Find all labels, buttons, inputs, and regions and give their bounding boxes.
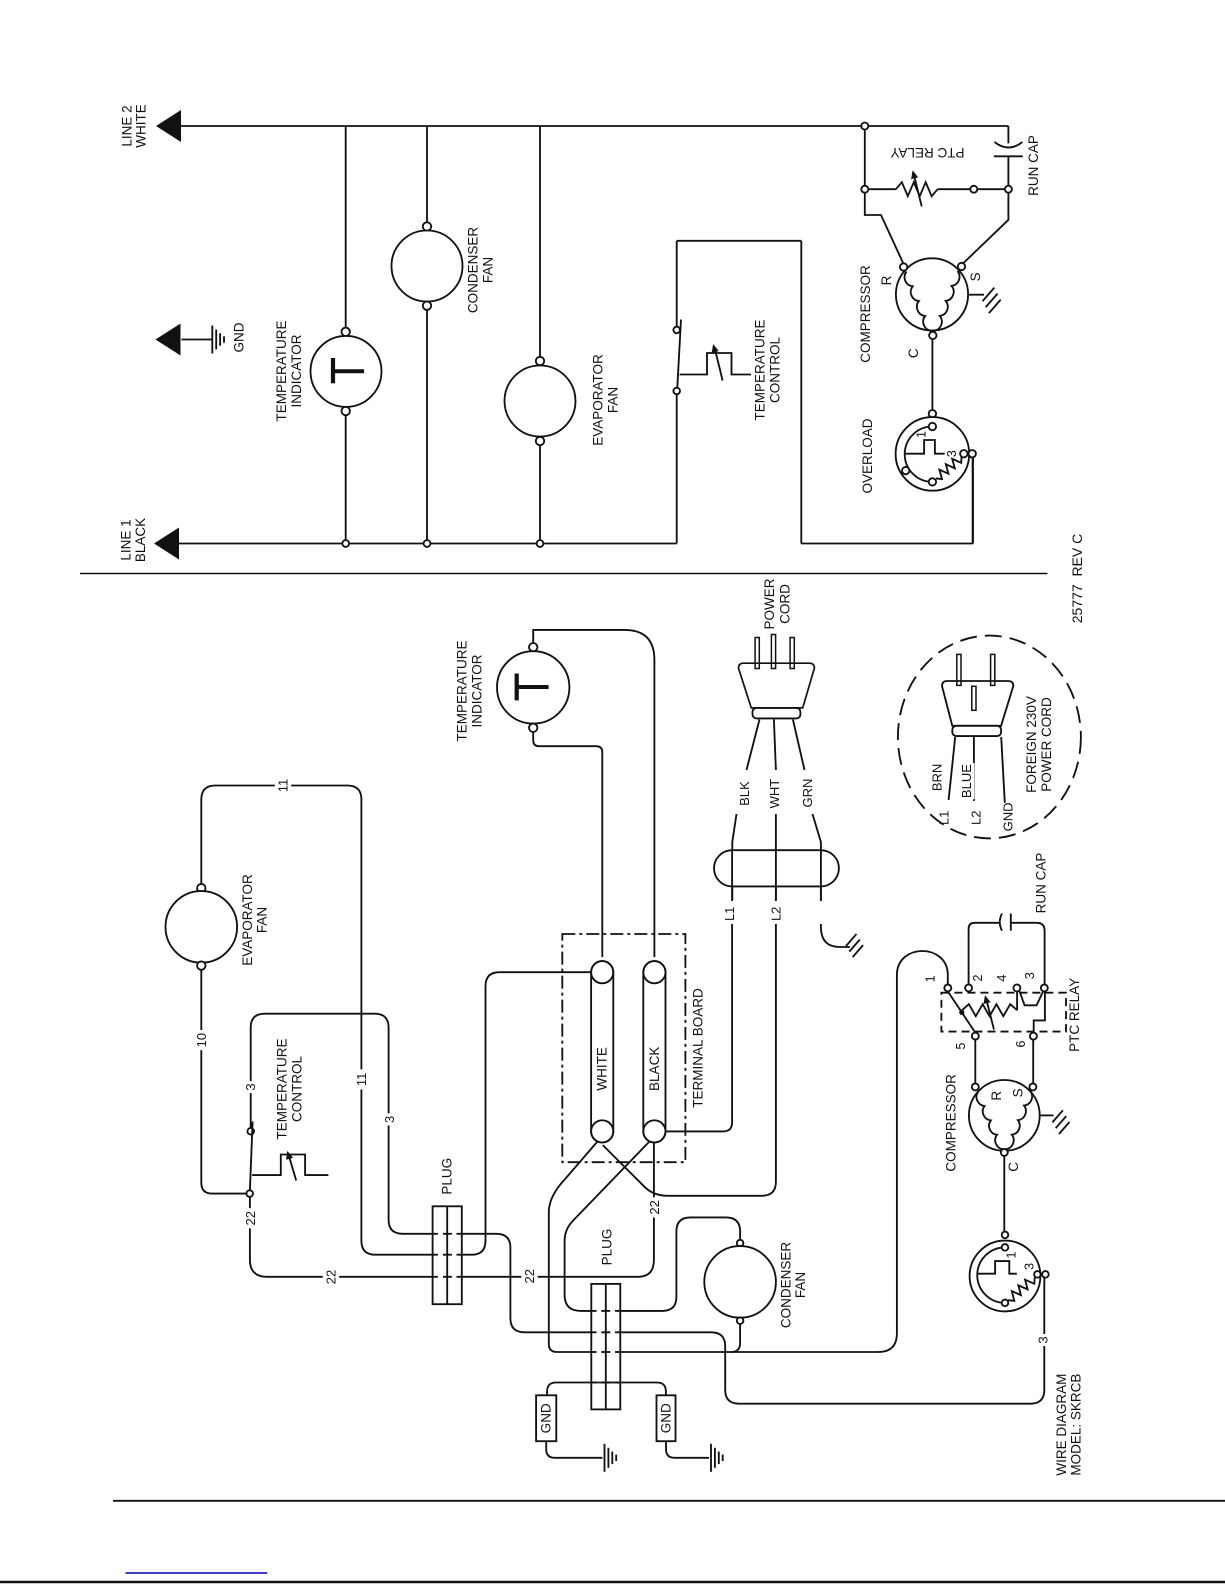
GND box left	[536, 1395, 556, 1441]
foreign cord wires	[949, 737, 956, 800]
run capacitor (wiring)	[969, 923, 999, 985]
thermostat bellows element	[680, 353, 751, 375]
wire: temp indicator top to BLACK terminal	[533, 630, 654, 957]
svg-text:TEMPERATURE: TEMPERATURE	[455, 640, 470, 741]
switch blade	[677, 320, 681, 388]
link 4 to 3	[1019, 991, 1043, 1005]
condenser fan motor (schematic)	[423, 222, 431, 230]
svg-text:L1: L1	[722, 907, 737, 921]
evaporator fan motor (schematic)	[536, 357, 544, 365]
wire: temp indicator bottom to WHITE terminal	[533, 731, 602, 957]
PLUG 1 connector	[433, 1206, 462, 1304]
svg-text:L1: L1	[936, 811, 951, 825]
foreign 230V power cord illustration	[898, 636, 1081, 839]
overload protector (wiring)	[1002, 1232, 1009, 1239]
arrow terminal LINE 1	[154, 528, 179, 560]
resistor zigzag PTC	[868, 188, 896, 190]
svg-text:11: 11	[354, 1073, 369, 1087]
svg-text:3: 3	[1023, 972, 1037, 979]
svg-text:R: R	[879, 275, 894, 285]
wire: condenser fan to LINE 1	[426, 310, 428, 544]
wire: 3 from temp control top	[251, 1014, 1045, 1404]
wire: 11 evap fan top loop to WHITE terminal top	[201, 786, 591, 1255]
svg-text:C: C	[1006, 1162, 1021, 1172]
winding garlands	[905, 272, 932, 331]
svg-text:R: R	[989, 1091, 1004, 1101]
wire: overload 3 down to LINE1 extension	[972, 457, 974, 543]
overload contact element (wiring)	[978, 1261, 1017, 1274]
svg-text:INDICATOR: INDICATOR	[470, 654, 485, 727]
svg-text:1: 1	[1005, 1251, 1019, 1258]
svg-text:2: 2	[971, 974, 985, 981]
wire: LINE 1 bus	[179, 543, 677, 545]
arrow terminal LINE 2	[156, 110, 181, 142]
svg-text:L2: L2	[768, 907, 783, 921]
svg-text:TERMINAL BOARD: TERMINAL BOARD	[691, 988, 706, 1108]
compressor motor (schematic)	[896, 258, 968, 330]
evaporator fan (wiring)	[197, 884, 205, 892]
svg-text:CONDENSER: CONDENSER	[779, 1242, 794, 1329]
wire: temperature indicator branch (top)	[345, 126, 347, 328]
svg-text:4: 4	[995, 975, 1009, 982]
terminal C	[929, 332, 936, 339]
svg-text:MODEL: SKRCB: MODEL: SKRCB	[1069, 1374, 1084, 1476]
terminal R	[900, 263, 907, 270]
svg-text:EVAPORATOR: EVAPORATOR	[240, 874, 255, 966]
svg-text:COMPRESSOR: COMPRESSOR	[858, 265, 873, 363]
wire: temp control top to loop	[676, 241, 678, 327]
wire: LINE 2 bus	[181, 125, 862, 127]
wire: node down from LINE2	[864, 130, 866, 186]
svg-text:22: 22	[647, 1200, 662, 1214]
wire: PTC to compressor R	[865, 193, 903, 263]
svg-text:1: 1	[924, 975, 938, 982]
wire: BLACK bottom crossover to condenser fan	[565, 1141, 741, 1311]
svg-text:INDICATOR: INDICATOR	[289, 334, 304, 407]
wire: compressor C to overload	[931, 339, 933, 410]
svg-text:3: 3	[945, 450, 959, 457]
link 3 to 6	[1034, 991, 1045, 1032]
chassis ground at compressor (wiring)	[1040, 1114, 1054, 1116]
wire: GRN to chassis ground	[821, 924, 850, 947]
svg-text:GRN: GRN	[800, 779, 815, 808]
svg-text:22: 22	[522, 1269, 537, 1283]
run capacitor (schematic)	[1007, 126, 1009, 143]
svg-text:6: 6	[1014, 1040, 1028, 1047]
wire: LINE1 segment to overload	[801, 543, 973, 545]
svg-text:5: 5	[954, 1042, 968, 1049]
svg-text:GND: GND	[232, 322, 247, 352]
svg-text:10: 10	[194, 1033, 209, 1047]
bimetal arc	[905, 427, 933, 482]
relay terminals	[944, 984, 951, 991]
foreign plug prongs	[957, 654, 961, 685]
labels L1 L2	[722, 904, 738, 924]
svg-text:GND: GND	[539, 1403, 554, 1433]
svg-text:C: C	[906, 348, 921, 358]
wire: line1 up to temp control contact	[676, 394, 678, 543]
svg-text:FAN: FAN	[481, 257, 496, 283]
wire: condenser fan branch (top)	[426, 126, 428, 222]
svg-text:BLK: BLK	[737, 781, 752, 806]
wire: L2 (WHT) to WHITE terminal bottom	[603, 924, 776, 1196]
svg-text:POWER: POWER	[762, 578, 777, 629]
svg-text:FAN: FAN	[606, 387, 621, 413]
PLUG 2 connector	[591, 1284, 620, 1410]
svg-text:22: 22	[243, 1211, 258, 1225]
foreign plug body	[942, 681, 1013, 726]
relay switch arm 1-5	[948, 991, 976, 1032]
svg-text:FAN: FAN	[793, 1272, 808, 1298]
cord wires BLK WHT GRN	[747, 720, 760, 771]
svg-text:3: 3	[1022, 1263, 1036, 1270]
thermostat bellows element (wiring)	[252, 1155, 328, 1176]
chassis ground at compressor S side	[968, 294, 984, 296]
svg-text:RUN CAP: RUN CAP	[1034, 853, 1049, 914]
svg-text:25777 REV C: 25777 REV C	[1069, 534, 1085, 624]
overload terminal nodes	[929, 423, 936, 430]
wire: L1 (BLK) to BLACK terminal bottom	[667, 924, 733, 1131]
svg-text:CORD: CORD	[778, 584, 793, 624]
svg-text:TEMPERATURE: TEMPERATURE	[275, 1038, 290, 1139]
wire: condenser fan bottom joins L2 run	[731, 1324, 740, 1352]
resistor stub to 4	[1016, 991, 1018, 1010]
T symbol	[515, 674, 519, 701]
svg-text:RUN CAP: RUN CAP	[1026, 135, 1041, 196]
relay resistor	[962, 1004, 1017, 1016]
wire: 10 evap fan bottom to temp control	[201, 970, 246, 1194]
svg-text:22: 22	[324, 1270, 339, 1284]
svg-text:PLUG: PLUG	[439, 1158, 454, 1195]
svg-text:FAN: FAN	[255, 907, 270, 933]
separator line between diagrams	[80, 573, 1048, 575]
svg-text:FOREIGN 230V: FOREIGN 230V	[1024, 696, 1039, 793]
BLACK terminal slot	[643, 961, 665, 1142]
node on LINE 2 at PTC branch	[861, 123, 868, 130]
PTC relay (wiring) dashed box	[941, 993, 1066, 1032]
terminal S	[958, 263, 965, 270]
svg-text:LINE 1: LINE 1	[119, 519, 134, 560]
T symbol inside temperature indicator	[331, 358, 335, 383]
wire: WHITE bottom crossover to compressor circuit	[549, 951, 948, 1352]
wire: 22 temp control bottom through plugs to BLACK bottom	[250, 1143, 654, 1277]
svg-text:CONDENSER: CONDENSER	[466, 227, 481, 314]
svg-text:WHITE: WHITE	[595, 1047, 610, 1091]
wire: evaporator fan to LINE 1	[539, 445, 541, 543]
arrow through PTC resistor	[914, 174, 922, 206]
svg-text:11: 11	[276, 779, 291, 793]
svg-text:WIRE DIAGRAM: WIRE DIAGRAM	[1054, 1374, 1069, 1476]
svg-text:GND: GND	[659, 1403, 674, 1433]
switch blade	[250, 1122, 253, 1191]
svg-text:TEMPERATURE: TEMPERATURE	[274, 320, 289, 421]
svg-text:BLACK: BLACK	[133, 518, 148, 562]
WHITE terminal slot	[591, 961, 613, 1142]
wires through strain relief	[731, 851, 733, 901]
svg-text:WHT: WHT	[767, 779, 782, 809]
temperature indicator (schematic)	[342, 328, 350, 336]
wire: compressor C to overload (wiring)	[1003, 1156, 1005, 1232]
wire: run cap node to compressor S	[964, 193, 1009, 263]
switch contacts temp control	[673, 388, 680, 395]
wire: temperature indicator to LINE 1	[345, 415, 347, 543]
svg-text:3: 3	[382, 1116, 397, 1123]
svg-text:3: 3	[243, 1083, 258, 1090]
prongs	[755, 638, 759, 669]
svg-text:WHITE: WHITE	[134, 104, 149, 148]
svg-text:1: 1	[915, 431, 929, 438]
plug body	[739, 663, 815, 708]
svg-text:GND: GND	[1001, 802, 1016, 831]
compressor motor (wiring)	[969, 1080, 1040, 1151]
page footer lines	[113, 1500, 1225, 1502]
wires relay to compressor	[974, 1040, 976, 1084]
svg-text:CONTROL: CONTROL	[290, 1056, 305, 1122]
overload heater zigzag	[936, 457, 962, 479]
terminal board dash-dot box	[562, 934, 685, 1162]
svg-text:POWER CORD: POWER CORD	[1039, 697, 1054, 792]
svg-text:BLUE: BLUE	[959, 764, 974, 798]
svg-text:L2: L2	[968, 811, 983, 825]
svg-text:S: S	[1011, 1088, 1026, 1097]
svg-text:EVAPORATOR: EVAPORATOR	[591, 354, 606, 446]
svg-text:3: 3	[1036, 1336, 1051, 1343]
svg-text:LINE 2: LINE 2	[120, 105, 135, 146]
temperature indicator (wiring)	[529, 643, 537, 651]
svg-text:PTC RELAY: PTC RELAY	[890, 145, 964, 160]
overload heater zigzag (wiring)	[1008, 1278, 1035, 1301]
svg-text:OVERLOAD: OVERLOAD	[860, 418, 875, 493]
GND straps from plug 2	[547, 1383, 666, 1396]
svg-text:PLUG: PLUG	[600, 1229, 615, 1266]
svg-text:TEMPERATURE: TEMPERATURE	[753, 319, 768, 420]
GND box right	[657, 1395, 676, 1441]
adjustment arrow through bellows	[715, 348, 723, 381]
svg-text:BLACK: BLACK	[647, 1047, 662, 1091]
temperature control (wiring)	[246, 1190, 253, 1197]
svg-text:COMPRESSOR: COMPRESSOR	[944, 1074, 959, 1172]
condenser fan (wiring)	[737, 1240, 744, 1247]
overload contact element	[905, 440, 945, 454]
svg-text:S: S	[968, 272, 983, 281]
overload protector (schematic)	[929, 410, 936, 417]
svg-text:PTC RELAY: PTC RELAY	[1067, 978, 1082, 1052]
ground GND symbol with arrow	[156, 324, 181, 356]
strain relief	[714, 850, 839, 886]
junction nodes on LINE 1	[342, 540, 349, 547]
wire: evaporator fan branch (top)	[539, 126, 541, 357]
svg-text:CONTROL: CONTROL	[768, 337, 783, 403]
arrow through relay resistor	[986, 999, 994, 1030]
svg-text:BRN: BRN	[929, 764, 944, 791]
